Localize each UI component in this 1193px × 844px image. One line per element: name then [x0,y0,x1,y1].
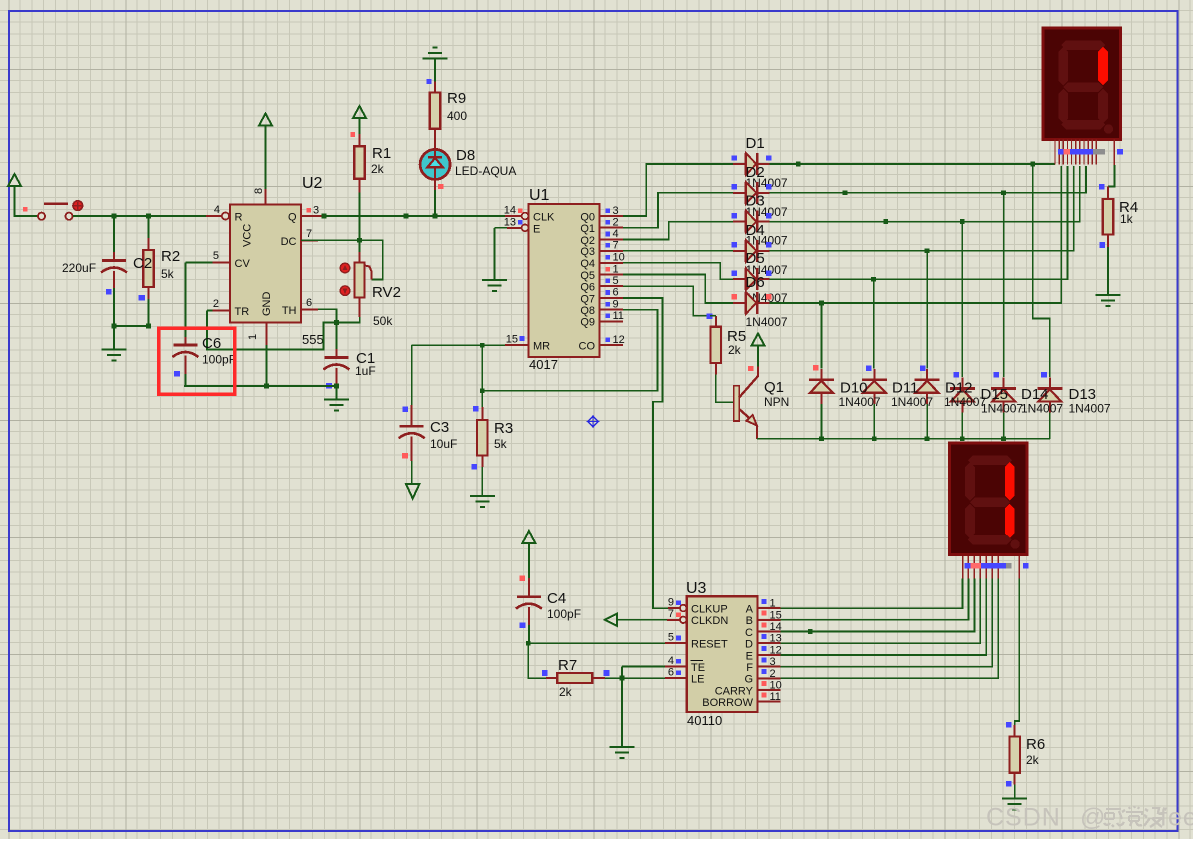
pin U3-1 stub [758,607,781,609]
pin display1 [1071,140,1073,165]
svg-text:VCC: VCC [242,224,254,247]
svg-text:D15: D15 [981,386,1009,403]
svg-text:11: 11 [770,691,781,703]
pin D10 anode [820,393,822,404]
wire to ground [113,326,115,350]
pin U3-3 stub [758,666,781,668]
wire U3 out to display [781,579,975,632]
wire GND down [266,345,268,386]
pin R7 right [592,677,605,679]
pin R4 bottom [1107,235,1109,248]
junction [925,436,930,441]
svg-text:CO: CO [579,341,596,353]
junction [819,301,824,306]
junction [112,214,117,219]
pin D2 cathode [758,192,770,194]
wire R5 top [710,315,716,317]
pin U3-12 stub [758,654,781,656]
wire MR to R3 node [481,345,483,391]
highlight box C6 [159,328,235,394]
counter U1 body [529,204,600,357]
diode D3 [746,211,758,233]
pin R4 top [1107,187,1109,199]
svg-text:D10: D10 [840,380,868,397]
pin RESET stub [665,642,687,644]
svg-text:Q8: Q8 [580,305,595,317]
wire down to R7 [528,643,546,678]
pin CV stub [212,261,230,263]
wire R1 to DC node [359,193,361,241]
pin R1 bottom [359,179,361,193]
wire Q1 to D2 [623,193,733,228]
pin Q3 stub [600,250,623,252]
svg-text:1: 1 [770,598,776,610]
svg-text:R2: R2 [161,248,180,265]
pin R stub [206,215,222,217]
pin Q8 stub [600,309,623,311]
resistor R7 [557,673,592,683]
junction [883,219,888,224]
ground E [482,280,507,291]
pin C1 top [335,349,337,357]
diode D11 [862,380,887,393]
resistor R5 [711,327,722,363]
svg-text:3: 3 [313,205,319,217]
svg-text:R6: R6 [1026,736,1045,753]
wire E [494,227,507,229]
svg-text:R: R [235,212,243,224]
pin display2 [967,556,969,579]
wire E to ground [493,228,495,280]
wire to R3 top [481,391,483,407]
svg-text:6: 6 [668,667,674,679]
svg-text:D13: D13 [1069,386,1097,403]
pin TE stub [665,665,687,667]
svg-text:2: 2 [613,217,619,229]
junction [146,324,151,329]
svg-text:C3: C3 [430,419,449,436]
wire row5 to D11 [873,279,875,368]
pin display2 [979,556,981,579]
pin display1 [1079,140,1081,165]
ground R4 [1096,295,1121,306]
wire to C2 top [113,216,115,252]
svg-text:11: 11 [613,310,624,322]
pin D2 anode [733,192,745,194]
resistor R9 [430,93,441,129]
pin D11 anode [873,393,875,404]
svg-text:Q0: Q0 [580,211,595,223]
wire row2 to D14 [1003,193,1005,377]
wire TE [622,665,665,667]
wire row3 riser [769,166,1079,222]
pin CLK circle [522,213,529,220]
wire CLKDN [617,619,667,621]
svg-text:LED-AQUA: LED-AQUA [455,164,516,178]
pin C4 top [528,578,530,596]
junction [620,676,625,681]
svg-text:RESET: RESET [691,639,728,651]
svg-text:15: 15 [770,609,782,621]
pin Q2 stub [600,238,623,240]
svg-text:C2: C2 [133,255,152,272]
svg-text:D14: D14 [1021,386,1049,403]
wire Q8 to MR node [482,310,657,391]
wire TE to LE [621,666,623,678]
pin R2 bottom [148,287,150,299]
svg-text:5: 5 [213,250,219,262]
wire row2 riser [769,166,1086,193]
svg-text:1N4007: 1N4007 [1021,402,1063,416]
pin C1 bottom [335,368,337,386]
pin D1 cathode [758,163,770,165]
svg-text:400: 400 [447,109,467,123]
pin DC stub [301,239,318,241]
capacitor C1 [323,358,349,370]
svg-text:TR: TR [235,306,250,318]
wire Q to U1 CLK [324,215,506,217]
pin Q6 stub [600,285,623,287]
pin E stub [507,227,525,229]
wire Q2 to D3 [623,222,733,240]
svg-text:D: D [745,639,753,651]
pin Q5 stub [600,274,623,276]
resistor R6 [1009,736,1020,772]
svg-text:D5: D5 [746,250,765,267]
svg-text:6: 6 [306,297,312,309]
resistor R2 [143,250,154,287]
svg-text:C6: C6 [202,335,221,352]
svg-text:feel#: feel# [1160,804,1193,832]
svg-text:4017: 4017 [529,357,558,372]
pin U3-2 stub [758,677,781,679]
transistor Q1 [734,367,758,439]
junction [1030,162,1035,167]
svg-text:5: 5 [668,632,674,644]
svg-text:4: 4 [613,228,619,240]
pin Q9 stub [600,320,623,322]
svg-text:2: 2 [770,668,776,680]
wire emitter rail [757,438,1050,440]
pin D14 anode [1003,402,1005,413]
svg-text:B: B [746,615,753,627]
svg-text:Q3: Q3 [580,246,595,258]
pin display1 [1087,140,1089,165]
wire C1 to ground [335,386,337,400]
pin R6 top [1014,725,1016,736]
svg-text:7: 7 [668,608,674,620]
pin D14 cathode [1003,378,1005,389]
marker row display1 [1058,149,1064,155]
wire Q4 to D5 [623,263,733,279]
svg-text:10uF: 10uF [430,437,457,451]
diode D5 [746,268,758,290]
svg-text:2k: 2k [728,343,742,357]
svg-text:2k: 2k [559,685,573,699]
svg-text:7: 7 [306,228,312,240]
junction [808,629,813,634]
wire D15 to rail [961,413,963,439]
pin U3-14 stub [758,631,781,633]
wire R2 bottom [148,299,150,326]
button SW1 [38,201,83,220]
svg-text:U2: U2 [302,175,323,192]
wire gnd rail left [114,325,149,327]
pin Q4 stub [600,262,623,264]
svg-text:LE: LE [691,674,704,686]
pin RV2 top [359,252,361,262]
svg-text:1N4007: 1N4007 [746,315,788,329]
wire TR [207,309,213,311]
svg-text:1: 1 [613,263,619,275]
ground U3 [609,747,634,758]
svg-text:E: E [533,223,540,235]
wire C4 to RESET [528,625,530,643]
capacitor C3 [399,426,425,438]
wire row4 riser [769,166,1073,251]
svg-text:GND: GND [261,292,273,317]
svg-text:D1: D1 [746,135,765,152]
pin MR stub [505,344,529,346]
pin D12 cathode [926,369,928,380]
wire bottom rail [184,385,336,387]
pin display1 [1083,140,1085,165]
junction [480,343,485,348]
wire row5 riser [769,166,1067,279]
junction [112,324,117,329]
power arrow Q1 [752,334,765,346]
svg-text:1N4007: 1N4007 [891,395,933,409]
svg-text:CLKUP: CLKUP [691,604,728,616]
pin CLKUP stub [668,607,680,609]
svg-text:12: 12 [613,334,625,346]
svg-text:CLKDN: CLKDN [691,615,728,627]
wire Q5 to D6 [623,275,733,303]
pin D8 bottom [434,179,436,190]
pin display2 [985,556,987,579]
ground R6 [1002,799,1027,810]
display DS2 bottom [950,443,1028,554]
pin display2 [997,556,999,579]
pin CLKUP circle [680,605,687,612]
pin D4 anode [733,250,745,252]
junction [526,641,531,646]
wire button to U2 R pin [73,215,206,217]
svg-text:5k: 5k [161,267,175,281]
diode D13 [1037,389,1062,402]
junction [871,277,876,282]
junction [433,214,438,219]
wire to C1 [335,322,337,349]
pin Q7 stub [600,297,623,299]
svg-text:Q9: Q9 [580,317,595,329]
pin CLKDN stub [667,619,680,621]
wire to R2 top [148,216,150,238]
capacitor C2 [101,261,127,273]
pin R circle [222,212,229,219]
pin LE stub [665,677,687,679]
svg-text:E: E [746,650,753,662]
wire row6 to D10 [820,303,822,369]
svg-text:C: C [745,627,753,639]
pin Q1 stub [600,227,623,229]
pin D11 cathode [873,369,875,380]
svg-text:220uF: 220uF [62,261,96,275]
wire to RV2 top [359,240,361,252]
wire LE [605,677,665,679]
wire U3 out to display [781,579,987,655]
svg-text:4: 4 [668,655,674,667]
pin D5 anode [733,278,745,280]
svg-text:DC: DC [281,236,297,248]
pin GND stub [266,323,268,346]
pin R3 bottom [481,456,483,467]
svg-text:CARRY: CARRY [715,685,754,697]
wire D12 to rail [926,404,928,439]
svg-text:Q1: Q1 [764,379,784,396]
svg-text:D12: D12 [945,380,973,397]
svg-text:3: 3 [770,656,776,668]
junction [264,384,269,389]
wire to C3 [411,345,413,405]
diode D2 [746,182,758,204]
svg-text:Q5: Q5 [580,270,595,282]
junction [796,162,801,167]
svg-text:@: @ [1080,804,1106,832]
RV2 up button [340,263,350,273]
svg-text:2k: 2k [1026,753,1040,767]
wire D8 to Q net [434,190,436,216]
capacitor C6 [172,345,198,357]
pin display1 [1095,140,1097,165]
wire MR [412,344,505,346]
diode D6 [746,292,758,314]
pin D10 cathode [820,369,822,380]
junction [960,219,965,224]
pin R9 bottom [434,129,436,150]
wire TH to TR under chip [207,310,337,349]
pin D13 anode [1049,402,1051,413]
pin display1 [1066,140,1068,165]
origin marker [587,415,600,428]
svg-text:D3: D3 [746,193,765,210]
svg-text:NPN: NPN [764,395,789,409]
resistor R1 [354,146,365,179]
wire D13 to rail [1049,413,1051,439]
svg-text:5k: 5k [494,437,508,451]
junction [925,248,930,253]
wire Q6 to R5 [623,286,710,316]
wire D14 to rail [1003,413,1005,439]
wire U3 out to display [781,579,981,644]
pin E circle [522,224,529,231]
pin D15 cathode [961,378,963,389]
wire C2 bottom [113,288,115,326]
wire RV2 bottom [336,317,359,322]
pin D12 anode [926,393,928,404]
wire LE to ground [621,678,623,747]
svg-text:Q6: Q6 [580,282,595,294]
power arrow R1 [353,106,366,118]
resistor R3 [477,420,488,456]
pin D15 anode [961,402,963,413]
svg-text:15: 15 [506,334,518,346]
potentiometer RV2 body [355,262,365,297]
diode D4 [746,240,758,262]
svg-text:MR: MR [533,341,550,353]
wire U3 out to display [781,579,963,609]
wire gnd to R9 [434,59,436,82]
pin display2 [991,556,993,579]
diode D15 [950,389,975,402]
RV2 wiper [365,266,372,280]
wire VCC [265,126,267,190]
pin C6 top [184,337,186,344]
svg-text:TE: TE [691,662,705,674]
svg-text:555: 555 [302,332,324,347]
arrow down C3 [406,484,419,499]
wire CV to C6 [184,262,186,337]
wire C6 bottom [184,374,186,386]
svg-text:4: 4 [214,204,220,216]
junction [1001,190,1006,195]
diode D12 [915,380,940,393]
svg-text:Q7: Q7 [580,293,595,305]
pin display1 [1091,140,1093,165]
junction [872,436,877,441]
svg-text:BORROW: BORROW [702,697,753,709]
svg-text:A: A [746,604,754,616]
marker row display2 [964,563,970,569]
pin R2 top [148,238,150,250]
wire DC to RV2 wiper [301,240,383,279]
RV2 down button [340,286,350,296]
junction [146,214,151,219]
watermark [986,804,1193,832]
svg-text:1k: 1k [1120,212,1134,226]
ground C1 [324,400,349,411]
pin D3 anode [733,221,745,223]
pin U3-13 stub [758,642,781,644]
pin C2 bottom [113,271,115,288]
diode D10 [809,380,834,393]
pin Q stub [301,215,324,217]
svg-text:D11: D11 [892,380,918,397]
pin VCC stub [265,189,267,205]
wire VCC to Q1 collector [757,346,759,367]
pin C3 top [411,405,413,425]
wire common to R4 [1108,165,1114,187]
svg-text:1N4007: 1N4007 [1069,402,1111,416]
svg-text:6: 6 [613,287,619,299]
svg-text:50k: 50k [373,314,393,328]
svg-text:13: 13 [770,633,782,645]
svg-text:2k: 2k [371,162,385,176]
pin Q0 stub [600,215,623,217]
ground left [102,350,127,361]
pin R5 bottom [715,363,717,374]
wire Q7 to U3 CLKUP [623,298,668,608]
wire to C4 [528,543,530,578]
svg-text:D8: D8 [456,147,475,164]
svg-text:TH: TH [282,305,297,317]
power arrow U2 VCC [259,114,272,126]
diode D14 [991,389,1016,402]
op timer U2 body [230,205,301,323]
pin C6 bottom [184,356,186,375]
svg-text:D2: D2 [746,164,765,181]
junction [1001,436,1006,441]
